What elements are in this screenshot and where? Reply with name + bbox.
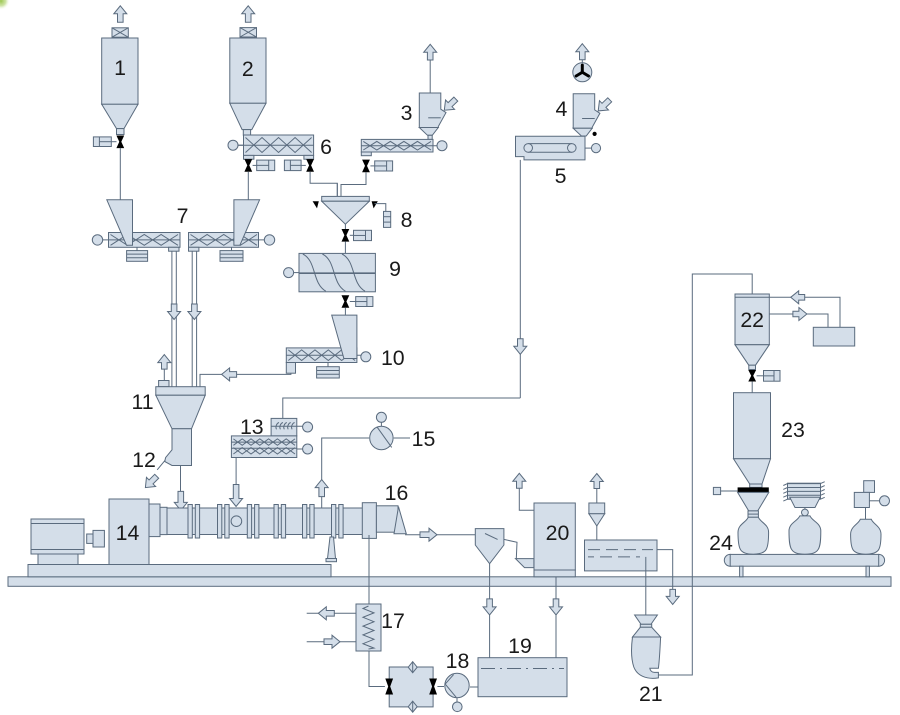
hopper 11 discharge tube [165, 429, 192, 466]
cyclone 22 body [735, 294, 769, 345]
pipe feeder 7 left to hopper 11 [172, 251, 176, 387]
dewaterer 21 expander [633, 627, 661, 637]
left clamp on mixer 8 [313, 201, 319, 208]
vibrator under feeder 7 right [220, 247, 243, 261]
feeder 7 right discharge step [189, 247, 199, 251]
wire mixer 8 to valve [344, 224, 346, 229]
inlet pipes into mixer 8 [337, 183, 341, 196]
label 23 [781, 420, 805, 441]
vibrator under feeder 7 left [127, 247, 148, 261]
die end flange [362, 503, 376, 539]
wire pump 15 to label [394, 437, 410, 439]
wire water tank overflow [657, 550, 673, 590]
wire water tank to dewaterer 21 [645, 557, 647, 615]
drive circle of mixer 9 [284, 268, 299, 278]
motor of feeder 6 right valve [284, 160, 305, 171]
mixer 8 lid [322, 196, 370, 201]
silo 2 cone [230, 103, 266, 135]
feeder 10 hopper [332, 315, 357, 358]
valve under cyclone 22 [748, 370, 756, 382]
drive circle of feeder 3 [437, 141, 447, 151]
vent stub of hopper 11 [159, 369, 169, 387]
down arrow into extruder port 2 [230, 485, 243, 507]
silo 1 [102, 38, 138, 104]
fan symbol [573, 60, 592, 82]
label 13 [240, 417, 264, 438]
down arrow on right pipe [188, 304, 201, 320]
vent arrow above hopper 3 [424, 44, 437, 60]
label 8 [401, 210, 413, 231]
drive circle of conveyor 5 [585, 144, 601, 153]
label 5 [555, 166, 567, 187]
label 24 [709, 533, 733, 554]
valve under feeder 6 left [244, 159, 252, 172]
extruder base frame [28, 565, 331, 577]
bottom diamond valve [408, 701, 417, 712]
wire feeder 13 to extruder port 2 [235, 458, 237, 487]
right arrow on strand wire [420, 528, 437, 541]
circle of station 3 [880, 496, 890, 506]
strand water slide [475, 529, 504, 564]
die cone 16 [394, 507, 406, 534]
inlet arrow into hopper 3 [444, 97, 457, 110]
label 16 [385, 483, 409, 504]
wire feeder 10 to hopper 11 [200, 373, 291, 387]
wire tube boot to arrow 12 [157, 460, 165, 470]
coupling [87, 530, 105, 547]
label 20 [546, 523, 570, 544]
filter box on silo 1 [112, 28, 128, 37]
mixer 8 cone [322, 201, 370, 224]
screw feeder under hopper 3 [361, 139, 437, 152]
coolant wire lower [307, 641, 356, 643]
vent arrow above silo 2 [242, 6, 255, 23]
motor pedestal [38, 554, 78, 565]
label 18 [446, 651, 470, 672]
separator stub [596, 489, 598, 504]
drive circle of feeder 13 body [297, 444, 313, 454]
drive circle of feeder 7 left [92, 235, 102, 245]
vent arrow above fan 4 [576, 44, 589, 60]
extruder main motor [31, 519, 84, 554]
strand wire die to water slide [405, 534, 475, 536]
filling head band [738, 487, 769, 492]
down arrow on conveyor 5 wire [514, 339, 527, 355]
valve under mixer 8 [342, 229, 350, 242]
label 14 [116, 523, 140, 544]
dewaterer 21 body [632, 637, 661, 678]
side feeder 13 body [231, 436, 296, 458]
drive circle of feeder 13 top [303, 422, 313, 432]
vent arrow above hopper 11 [158, 355, 171, 370]
label 1 [114, 58, 126, 79]
down arrow into extruder port 1 [174, 491, 187, 510]
right clamp on mixer 8 [372, 201, 378, 208]
continuous mixer 9 [299, 253, 375, 291]
die support leg [326, 537, 337, 562]
small separator [589, 503, 605, 526]
wire valve to mixer 9 [344, 241, 346, 253]
left arrow on feeder 10 wire [222, 368, 237, 381]
barrel flanges [188, 505, 343, 539]
motor of silo 1 valve [93, 137, 116, 147]
dewaterer 21 inlet funnel [635, 615, 658, 627]
heat exchanger 17 [356, 604, 381, 651]
up arrow on dryer vent [513, 473, 526, 488]
gripper of station 3 [854, 481, 879, 508]
label 21 [639, 684, 663, 705]
side discharge arrow 12 [145, 474, 158, 487]
dryer 20 body [534, 503, 575, 577]
down arrow on overflow [666, 589, 679, 604]
air return wire cyclone 22 [769, 297, 840, 327]
left black valve on diverter [385, 679, 393, 695]
floor / ground line [8, 577, 891, 587]
drive circle of feeder 10 [361, 352, 371, 362]
wire feeder 3 valve to mixer 8 [341, 172, 366, 196]
hopper 11 head [156, 387, 205, 396]
wire dryer 20 to water tank 19 [555, 577, 557, 658]
pipe feeder 7 right to hopper 11 [192, 251, 196, 387]
valve under mixer 9 [342, 295, 350, 308]
right arrow on air outlet [793, 308, 807, 321]
label 10 [381, 348, 405, 369]
vibrator under feeder 10 [317, 363, 340, 379]
belt conveyor 24 [724, 554, 884, 566]
conveying wire 21 to cyclone 22 [658, 274, 752, 675]
wire feeder 6 right valve to mixer 8 [310, 172, 337, 197]
wire silo 1 to feeder 7 left hopper [119, 148, 121, 200]
vent wire of dryer 20 [519, 488, 534, 510]
drive circle of feeder 7 right [264, 235, 274, 245]
label 15 [412, 429, 436, 450]
feeder 3 discharge step [361, 152, 371, 156]
nozzle of station 2 [802, 508, 809, 516]
wire pump 18 to tank 19 [470, 686, 478, 688]
vent arrow above silo 1 [114, 6, 127, 23]
wire cyclone 22 to silo 23 [751, 382, 753, 393]
wire mixer 9 to feeder 10 [344, 308, 346, 316]
label 3 [401, 103, 413, 124]
left arrow on coolant upper [318, 607, 334, 620]
motor of cyclone valve [757, 371, 780, 382]
silo 23 [734, 393, 771, 459]
wire slide bottom to water tank 19 [489, 564, 491, 658]
label 11 [131, 392, 153, 413]
vacuum pump 15 [370, 412, 393, 449]
left arrow on air return [791, 291, 805, 304]
motor of mixer 8 valve [350, 230, 372, 240]
air outlet wire cyclone 22 [769, 314, 828, 327]
bag on station 2 [789, 516, 821, 554]
level sensor 8 [384, 211, 391, 227]
silo 2 [230, 38, 266, 103]
wire slide to dewatering chute [504, 539, 517, 558]
extruder feed block [149, 504, 167, 537]
motor of mixer 9 valve [350, 297, 373, 307]
label 9 [389, 259, 401, 280]
feeder 10 trough [286, 348, 361, 363]
extruder barrel [167, 508, 363, 535]
drive circle of feeder 6 [228, 140, 244, 150]
barrel port circle [231, 516, 242, 527]
label 2 [242, 59, 254, 80]
wire separator to water tank [596, 526, 598, 540]
wire conveyor 5 down to junction [519, 160, 521, 398]
motor of feeder 6 left valve [253, 160, 275, 171]
wire pump 15 to extruder vent [322, 438, 369, 480]
gearbox 14 [109, 499, 149, 566]
up arrow on separator vent [590, 474, 603, 489]
process water tank [585, 540, 658, 571]
label 4 [555, 99, 567, 120]
wire feeder 6 left valve to feeder 7 right hopper [247, 172, 249, 200]
feeder 10 discharge step [286, 363, 295, 374]
valve under feeder 3 [362, 160, 370, 173]
conveyor 24 legs [740, 566, 870, 577]
motor of feeder 3 valve [370, 161, 392, 171]
up arrow at extruder vent [315, 480, 328, 508]
label 7 [177, 206, 189, 227]
label 22 [740, 310, 764, 331]
wire die area to heat exchanger 17 [368, 535, 370, 604]
hopper 4 [573, 94, 600, 136]
top diamond valve [408, 662, 417, 673]
spot dot beside hopper 4 [593, 132, 597, 136]
filter box on silo 2 [240, 28, 257, 37]
valve under silo 1 [116, 136, 124, 149]
filling head sensor [713, 487, 737, 494]
feeder 7 left trough [103, 233, 180, 248]
valve under feeder 6 right [306, 159, 314, 172]
cup of station 2 [790, 497, 820, 507]
screw feeder 6 trough [239, 135, 314, 155]
filling funnel [738, 492, 769, 511]
bag on filling station [738, 517, 769, 554]
chute into dryer 20 [516, 559, 534, 568]
belt conveyor 5 [516, 136, 586, 160]
bellows stack on station 2 [783, 482, 824, 501]
feeder 7 left discharge step [169, 247, 179, 251]
down arrow on dryer drain [550, 599, 563, 615]
wire mixer clamp to level sensor 8 [375, 204, 386, 212]
feeder 7 left hopper [107, 200, 133, 245]
feeder 6 discharge steps [244, 155, 314, 159]
label 17 [381, 611, 405, 632]
hopper 3 [419, 93, 446, 139]
label 6 [320, 137, 332, 158]
green corner mark [0, 0, 10, 10]
right black valve on diverter [429, 679, 437, 695]
wire junction to side feeder 13 [283, 398, 521, 418]
diverter box [389, 667, 433, 707]
inlet arrow into hopper 4 [598, 98, 611, 111]
feeder 7 right hopper [234, 200, 260, 245]
coolant wire upper [307, 612, 356, 614]
cyclone 22 cone [735, 345, 769, 370]
wire diverter to pump 18 [437, 686, 444, 688]
pump 18 [445, 673, 469, 711]
down arrow on slide drain [483, 599, 496, 615]
label 12 [132, 450, 156, 471]
silo 1 cone [102, 104, 138, 134]
hopper 11 cone [156, 395, 205, 429]
right arrow on coolant lower [324, 635, 340, 648]
wire hopper 11 to extruder [180, 466, 182, 494]
blower box [813, 327, 854, 346]
wire heat exchanger to diverter [369, 651, 385, 687]
down arrow on left pipe [168, 304, 181, 320]
silo 23 cone [734, 459, 771, 488]
wire gripper to bag 3 [865, 508, 867, 521]
label 19 [508, 636, 532, 657]
vent line of hopper 3 [429, 60, 431, 93]
side feeder 13 top box [271, 418, 303, 436]
oil tank 19 [478, 658, 567, 697]
bag on station 3 [851, 519, 881, 554]
feeder 7 right trough [189, 233, 265, 248]
die body [376, 506, 398, 532]
bag clamp collar [748, 511, 758, 517]
